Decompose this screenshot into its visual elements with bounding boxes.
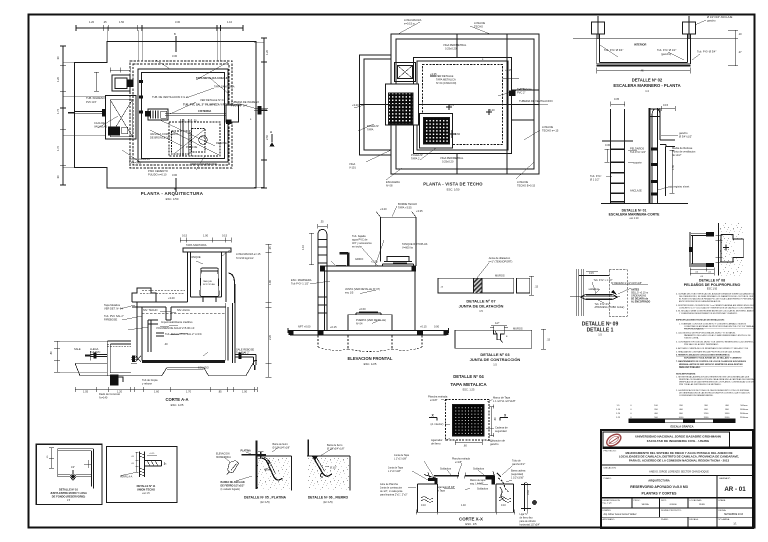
hatch grid 1	[389, 93, 414, 124]
svg-text:ESC. 1/25: ESC. 1/25	[171, 403, 184, 407]
svg-text:1/2": 1/2"	[495, 321, 500, 325]
top dimension chain	[76, 25, 243, 31]
svg-text:TANQUE: TANQUE	[203, 280, 212, 283]
svg-text:agua PVC de: agua PVC de	[352, 238, 368, 242]
svg-text:.60: .60	[493, 417, 497, 421]
left wall block	[418, 484, 438, 512]
inner caseta wall below	[166, 307, 171, 320]
svg-text:ANTICORROSIVOS EN CADA INSTALA: ANTICORROSIVOS EN CADA INSTALACION.	[679, 300, 721, 303]
svg-text:2.20: 2.20	[268, 334, 272, 340]
far-left dim	[54, 341, 60, 372]
svg-text:Agarrador: Agarrador	[431, 438, 443, 442]
svg-text:Tub. bajada: Tub. bajada	[352, 234, 366, 238]
leaders	[310, 206, 397, 324]
svg-text:REBOSE: REBOSE	[216, 141, 227, 145]
svg-text:.85: .85	[218, 390, 222, 394]
logo box	[603, 432, 730, 448]
right corner angle black	[485, 476, 495, 485]
Z profile	[58, 449, 94, 489]
leaders	[408, 461, 528, 513]
svg-text:.35: .35	[320, 220, 324, 224]
planta arquitectura title	[141, 191, 204, 201]
svg-text:e=1" (TEKNOPORT): e=1" (TEKNOPORT)	[489, 260, 513, 264]
svg-text:SOLADO: SOLADO	[198, 366, 209, 370]
leaders	[606, 135, 678, 190]
ladder rails	[318, 236, 327, 331]
svg-text:Ø 1 1/2": Ø 1 1/2"	[590, 178, 600, 182]
svg-text:ROTOPLAS: ROTOPLAS	[203, 283, 215, 286]
interior beam lines	[360, 34, 458, 174]
svg-text:e=1/8": e=1/8"	[455, 461, 462, 464]
svg-text:TECHO e=.15: TECHO e=.15	[542, 129, 559, 133]
outer slab outline	[391, 34, 539, 174]
svg-text:Ø 1/2"x3/4" ANCLAJE: Ø 1/2"x3/4" ANCLAJE	[707, 15, 733, 19]
svg-text:+0.60: +0.60	[359, 307, 366, 311]
svg-text:VIGA PERIMETRAL: VIGA PERIMETRAL	[440, 156, 464, 160]
leaders	[320, 448, 333, 467]
svg-text:Soldadura: Soldadura	[440, 468, 452, 471]
svg-text:1.10: 1.10	[301, 244, 305, 250]
hatch grid 2	[424, 118, 450, 145]
svg-text:JUNTA ENTRE MURO Y LOSA: JUNTA ENTRE MURO Y LOSA	[50, 491, 87, 495]
plano row	[601, 497, 753, 499]
dims below	[690, 268, 714, 276]
top line + dim	[579, 274, 609, 276]
svg-text:1/2": 1/2"	[71, 467, 75, 469]
section A marker right	[271, 134, 273, 142]
svg-text:VIGA PERIMETRAL: VIGA PERIMETRAL	[443, 43, 467, 47]
svg-text:FECHA:: FECHA:	[719, 509, 727, 512]
svg-text:NPT +0.00: NPT +0.00	[298, 325, 311, 329]
svg-text:Tapa Metalica: Tapa Metalica	[104, 303, 121, 307]
svg-text:Tub. FºGº: Tub. FºGº	[590, 174, 601, 178]
left wing	[360, 55, 392, 155]
svg-text:VIGA: VIGA	[349, 162, 355, 166]
svg-text:Ubicacion de: Ubicacion de	[490, 439, 506, 443]
svg-text:y rebose: y rebose	[142, 382, 153, 386]
X axis marks	[429, 418, 508, 421]
svg-text:Impermeabilizante c/aditivo: Impermeabilizante c/aditivo	[161, 320, 193, 324]
planta arquitectura	[60, 25, 275, 192]
svg-text:Junta de dilatacion: Junta de dilatacion	[489, 256, 511, 260]
tank inside caseta	[200, 268, 219, 297]
svg-text:POZA DE: POZA DE	[186, 145, 198, 149]
svg-text:UNIVERSIDAD NACIONAL JORGE BAS: UNIVERSIDAD NACIONAL JORGE BASADRE GROHM…	[635, 435, 721, 439]
svg-text:3.30: 3.30	[175, 20, 181, 24]
base band	[288, 331, 449, 336]
corte X-X	[408, 461, 537, 515]
svg-text:PLANTA - VISTA DE TECHO: PLANTA - VISTA DE TECHO	[423, 182, 483, 187]
svg-text:0.25x0.20: 0.25x0.20	[445, 47, 457, 51]
left dimension chain	[60, 46, 66, 185]
concrete stipple	[256, 456, 291, 490]
svg-text:p/ Tapa: p/ Tapa	[437, 490, 445, 493]
svg-text:DETALLE Nº 06 , FIERRO: DETALLE Nº 06 , FIERRO	[308, 496, 349, 500]
svg-text:CORTE X-X: CORTE X-X	[459, 517, 483, 522]
svg-text:Cadena de: Cadena de	[495, 426, 508, 430]
svg-text:0.15: 0.15	[663, 103, 669, 107]
svg-text:Ø 1/2"x3/4"x1/8": Ø 1/2"x3/4"x1/8"	[273, 447, 291, 450]
ladder rungs	[611, 149, 625, 202]
svg-text:+3.20: +3.20	[380, 207, 387, 211]
svg-text:PLANTA - ARQUITECTURA: PLANTA - ARQUITECTURA	[141, 191, 204, 196]
svg-text:gancho: gancho	[490, 442, 499, 446]
svg-text:7. MANTENIMIENTO DE CONTROL: 7. MANTENIMIENTO DE CONTROL DE LOS DE CL…	[676, 360, 747, 363]
svg-text:JUNTA DE DILATACIÓN: JUNTA DE DILATACIÓN	[459, 304, 504, 309]
right wall section	[649, 108, 651, 204]
svg-text:2.50: 2.50	[265, 134, 269, 140]
svg-text:TUBOS CORTA.: TUBOS CORTA.	[684, 337, 699, 340]
svg-text:500mm: 500mm	[740, 405, 747, 407]
U channel tube	[597, 34, 691, 64]
small cross marks	[430, 76, 492, 138]
svg-text:TUBERIA DE VENTILACION: TUBERIA DE VENTILACION	[519, 99, 553, 103]
svg-text:Tub FºGº 1 1/2": Tub FºGº 1 1/2"	[291, 282, 309, 286]
corte A-A labels	[49, 234, 272, 400]
faucet	[340, 253, 348, 267]
svg-text:3.00: 3.00	[172, 173, 178, 177]
svg-text:+3.35: +3.35	[398, 109, 405, 113]
tank outer dashed wall	[130, 61, 232, 168]
ground line	[601, 203, 688, 205]
right black connector	[509, 91, 516, 97]
svg-text:+3.20: +3.20	[488, 108, 495, 112]
svg-text:PROV.:: PROV.:	[634, 500, 641, 502]
svg-text:CONSIDERACION PARA ATENERSE.: CONSIDERACION PARA ATENERSE.	[679, 394, 714, 397]
svg-text:de fierro: de fierro	[431, 442, 441, 446]
wall verticals	[611, 109, 625, 204]
svg-text:ESCALERA: ESCALERA	[386, 180, 400, 184]
svg-text:.15: .15	[535, 285, 539, 289]
svg-text:0.00: 0.00	[434, 325, 440, 329]
svg-text:LOSA DE: LOSA DE	[542, 125, 553, 129]
svg-text:1:5: 1:5	[598, 333, 602, 337]
svg-text:Nº RECESO 2 1/2"x3/4"x1/8": Nº RECESO 2 1/2"x3/4"x1/8"	[611, 281, 642, 285]
svg-text:1.60: 1.60	[154, 390, 160, 394]
svg-text:ang. L 1 1/2": ang. L 1 1/2"	[470, 483, 484, 486]
svg-text:Nº 08: Nº 08	[386, 184, 393, 188]
poza wall double lines	[181, 119, 191, 156]
svg-text:+0.15: +0.15	[149, 453, 155, 455]
arrow right top	[611, 290, 617, 295]
svg-text:0.10: 0.10	[421, 504, 426, 507]
svg-text:Ø 3/4"x1/2": Ø 3/4"x1/2"	[679, 135, 692, 139]
svg-text:1.80: 1.80	[268, 279, 272, 285]
svg-text:MENSUAL ANTES DE SER SERVICIO: MENSUAL ANTES DE SER SERVICIO SIEMPRE DE…	[679, 363, 743, 366]
caseta walls	[188, 252, 227, 302]
wall line	[573, 38, 735, 40]
wall line + stipple	[719, 223, 743, 276]
svg-text:.60: .60	[463, 444, 467, 448]
svg-text:e=1/8": e=1/8"	[430, 398, 438, 402]
interior dashed rooms	[169, 122, 220, 156]
proyecto row	[601, 464, 753, 466]
svg-text:en techo: en techo	[352, 245, 363, 249]
bottom dim chain	[75, 387, 257, 392]
svg-text:Ing. J. yrh: Ing. J. yrh	[603, 501, 613, 504]
svg-text:LOSA MACIZA e=.15: LOSA MACIZA e=.15	[236, 252, 261, 256]
hatched wall block	[108, 126, 120, 135]
title block	[601, 430, 753, 528]
svg-text:ETAPA:: ETAPA:	[719, 499, 727, 502]
main tank walls	[137, 302, 228, 361]
svg-text:gancho: gancho	[707, 19, 716, 23]
svg-text:VALVULAS: VALVULAS	[94, 125, 107, 129]
svg-text:1.40: 1.40	[461, 504, 466, 507]
svg-text:PLANTAS Y CORTES: PLANTAS Y CORTES	[641, 492, 677, 496]
planta vista de techo	[354, 22, 548, 180]
small box top-left	[112, 75, 130, 91]
detalle 11 box	[106, 447, 177, 503]
pencil isometrica	[228, 461, 239, 473]
svg-text:.10: .10	[738, 32, 742, 36]
detalle 10 box	[36, 444, 102, 504]
svg-text:DISEÑO:: DISEÑO:	[603, 509, 612, 512]
corte X-X labels	[380, 454, 540, 527]
lid plate	[434, 475, 494, 477]
svg-text:LAMINA Nº:: LAMINA Nº:	[719, 477, 731, 480]
right dimension chain	[261, 38, 267, 188]
svg-text:.90: .90	[56, 175, 60, 179]
hatched joint	[474, 278, 483, 293]
svg-text:0.15: 0.15	[222, 234, 228, 238]
vertical bar with hatch	[140, 452, 145, 477]
floor slab	[142, 360, 225, 363]
svg-text:V=600 lts: V=600 lts	[402, 246, 414, 250]
svg-text:NIV. TECHO: NIV. TECHO	[143, 308, 158, 312]
svg-text:V-101: V-101	[349, 166, 356, 170]
svg-text:(E= 1/5): (E= 1/5)	[323, 500, 332, 504]
svg-text:ARQUITECTURA: ARQUITECTURA	[648, 479, 670, 483]
svg-text:1.20: 1.20	[56, 76, 60, 82]
svg-text:+0.15: +0.15	[330, 325, 337, 329]
svg-text:+3.20: +3.20	[352, 103, 359, 107]
svg-text:+3.35: +3.35	[416, 209, 423, 213]
elevacion frontal	[288, 206, 449, 352]
pointed pipe	[581, 294, 618, 299]
svg-text:PARA EL ACUERDO DE LA COMISION: PARA EL ACUERDO DE LA COMISION NACIONAL …	[629, 458, 730, 462]
elevacion labels	[291, 202, 440, 329]
svg-text:ATRAVIESA ( TUBO Cortar): ATRAVIESA ( TUBO Cortar)	[595, 306, 625, 309]
main roof slab	[132, 297, 226, 307]
svg-text:0.10: 0.10	[501, 504, 506, 507]
handrail curve top	[652, 109, 660, 116]
svg-text:CORTE A-A: CORTE A-A	[165, 397, 188, 402]
axis mark bottom	[175, 178, 177, 192]
svg-text:PRE SALIO EL ACERO TEMPERADO.: PRE SALIO EL ACERO TEMPERADO.	[684, 343, 719, 346]
caseta top dim marks	[376, 212, 416, 218]
leaders	[441, 399, 494, 442]
door lower box	[348, 315, 392, 331]
leader	[477, 263, 489, 278]
foundation dashed	[318, 335, 422, 351]
svg-text:.45: .45	[640, 69, 644, 73]
svg-text:2000mm: 2000mm	[740, 413, 749, 415]
svg-text:ANCLAJE: ANCLAJE	[630, 189, 642, 193]
svg-text:VALVULA COMPUERTA: VALVULA COMPUERTA	[150, 132, 178, 136]
svg-text:1.00: 1.00	[203, 234, 209, 238]
hatch lid 1 frame	[386, 84, 419, 125]
svg-text:esc 1:10: esc 1:10	[629, 217, 639, 220]
svg-text:POLEA Nº: POLEA Nº	[411, 153, 423, 157]
svg-text:GRIFO: GRIFO	[355, 257, 363, 261]
svg-text:PROPORCIONADOS.: PROPORCIONADOS.	[684, 328, 704, 331]
svg-text:LOSA DE: LOSA DE	[474, 21, 485, 25]
svg-text:1:5: 1:5	[493, 363, 497, 367]
svg-text:VER DET. Nº 04: VER DET. Nº 04	[104, 307, 123, 311]
right edge strips	[507, 34, 534, 174]
detalle 08 peldanos	[689, 223, 744, 276]
leaders	[224, 447, 279, 481]
svg-text:1600: 1600	[725, 413, 731, 415]
top dim chain	[180, 238, 231, 243]
svg-text:VER DETALLE: VER DETALLE	[436, 74, 454, 78]
svg-text:3.30: 3.30	[172, 54, 178, 58]
svg-text:SETIEMBRE 2013: SETIEMBRE 2013	[724, 514, 744, 516]
svg-text:(A. interior): (A. interior)	[431, 422, 444, 426]
svg-text:Soldadura: Soldadura	[477, 488, 489, 491]
svg-text:f'c=140: f'c=140	[99, 396, 108, 400]
platina bar	[242, 454, 267, 456]
svg-text:CAJA DE: CAJA DE	[94, 121, 105, 125]
right small dim	[503, 72, 519, 84]
detalle 06 fierro	[307, 439, 350, 490]
anchor plate left	[592, 22, 605, 34]
svg-text:ESC. 1/25: ESC. 1/25	[364, 362, 377, 366]
svg-text:PLANO:: PLANO:	[604, 477, 612, 480]
svg-text:gancho Ø 2": gancho Ø 2"	[512, 463, 525, 466]
svg-text:DETALLE Nº 02: DETALLE Nº 02	[632, 78, 663, 83]
svg-text:1.70: 1.70	[186, 390, 192, 394]
svg-text:+2.20: +2.20	[371, 260, 378, 264]
right piece	[517, 278, 530, 293]
right dim bracket	[670, 150, 675, 193]
svg-text:DIST.:: DIST.:	[661, 500, 667, 502]
svg-text:Plancha estriada: Plancha estriada	[428, 395, 448, 399]
svg-text:MUROS: MUROS	[513, 327, 523, 331]
detalle 09 / detalle 1	[570, 269, 648, 316]
svg-text:JUNTA DE CONTRACCIÓN: JUNTA DE CONTRACCIÓN	[470, 357, 521, 362]
step shape right	[660, 140, 675, 147]
svg-text:DETALLE Nº 04: DETALLE Nº 04	[453, 374, 484, 379]
svg-text:Tub. FºGº Ø 1/2": Tub. FºGº Ø 1/2"	[657, 48, 676, 52]
outlet pipe right	[254, 109, 268, 111]
inner roof square	[414, 58, 512, 154]
right dim chain	[266, 244, 272, 377]
svg-text:DETALLE Nº 08: DETALLE Nº 08	[699, 279, 725, 283]
svg-text:1 1/2"x3/16": 1 1/2"x3/16"	[511, 477, 524, 480]
svg-text:f'c=210 kg/cm2: f'c=210 kg/cm2	[236, 256, 254, 260]
svg-text:0.15: 0.15	[182, 234, 188, 238]
leaders	[592, 282, 648, 303]
left corner angle black	[428, 478, 437, 484]
chain	[498, 478, 509, 492]
svg-text:CONCRETO 1:2 Y COLOCADOS Y REV: CONCRETO 1:2 Y COLOCADOS Y REVESTIDOS DE…	[679, 307, 766, 310]
svg-text:JUNTA (VER DETALLE Nº 07): JUNTA (VER DETALLE Nº 07)	[345, 287, 380, 291]
svg-text:Nº 04: Nº 04	[356, 322, 363, 326]
right wall box	[226, 105, 239, 122]
svg-text:TANQUE ROTOPLAS: TANQUE ROTOPLAS	[402, 242, 428, 246]
svg-text:NOTA IMPORTANTE:: NOTA IMPORTANTE:	[676, 373, 696, 376]
caseta walls	[381, 217, 417, 266]
svg-text:+0.15: +0.15	[420, 325, 427, 329]
svg-text:VER DETALLE Nº 04: VER DETALLE Nº 04	[200, 98, 225, 102]
svg-text:.80: .80	[49, 351, 53, 355]
svg-text:.30: .30	[181, 119, 185, 123]
svg-text:0.30: 0.30	[527, 490, 530, 495]
svg-text:AR - 01: AR - 01	[724, 486, 746, 493]
bottom dim	[416, 510, 515, 515]
svg-text:TAPA +3.55: TAPA +3.55	[398, 206, 412, 210]
svg-text:ESC. 1/5: ESC. 1/5	[465, 522, 477, 526]
roof slab band	[321, 266, 416, 271]
svg-text:Tub de limpia: Tub de limpia	[142, 378, 158, 382]
svg-text:(1 variado fugado): (1 variado fugado)	[221, 488, 241, 491]
svg-text:Y CUBIERTA DE REVESTIMIENTOS E: Y CUBIERTA DE REVESTIMIENTOS EN PINTURA …	[679, 312, 738, 315]
svg-text:.15: .15	[547, 338, 551, 342]
svg-text:ESC. 1/50: ESC. 1/50	[447, 188, 460, 192]
svg-text:0.70: 0.70	[449, 103, 455, 107]
svg-text:NIV. AGUA: NIV. AGUA	[177, 308, 190, 312]
svg-text:soldadura: soldadura	[589, 288, 600, 291]
svg-text:TUB. INGRESO: TUB. INGRESO	[86, 96, 105, 100]
detalle 07 junta de dilatacion	[438, 263, 534, 295]
left dim bracket	[605, 149, 610, 162]
svg-text:Tub PVC: Tub PVC	[90, 350, 101, 354]
svg-text:4. APOYADO CUENTA DE LOS RE: 4. APOYADO CUENTA DE LOS RESERVADOS NO E…	[676, 347, 749, 350]
svg-text:1.10: 1.10	[227, 20, 233, 24]
waterstop notch	[70, 475, 76, 481]
svg-text:UNION TECHO: UNION TECHO	[137, 488, 155, 492]
outer wall outline (L-bump on left)	[75, 42, 256, 189]
svg-text:ELEVACION FRONTAL: ELEVACION FRONTAL	[348, 356, 393, 361]
svg-text:ISOMETRICA: ISOMETRICA	[216, 456, 231, 459]
svg-text:Tub FºGº 3/4": Tub FºGº 3/4"	[630, 150, 646, 154]
svg-text:Ø 1/2"x3/4"x1/8": Ø 1/2"x3/4"x1/8"	[327, 448, 345, 451]
dashed lines under roof	[140, 290, 185, 293]
leader to top label	[600, 20, 706, 60]
svg-text:LOCALIDAD:: LOCALIDAD:	[690, 499, 703, 502]
svg-text:TECHO E=0.15: TECHO E=0.15	[517, 184, 536, 188]
svg-text:TAPA METALICA 0.60x0.60: TAPA METALICA 0.60x0.60	[196, 76, 229, 80]
svg-text:Tub. FºGº Ø 3/4": Tub. FºGº Ø 3/4"	[604, 48, 623, 52]
svg-text:TUBERIA DE INGRESO: TUBERIA DE INGRESO	[231, 100, 259, 104]
planta techo labels	[349, 18, 559, 188]
svg-text:3/4" y accesorios: 3/4" y accesorios	[352, 241, 372, 245]
svg-text:+3.35: +3.35	[430, 72, 437, 76]
inlet pipe left	[75, 112, 106, 114]
svg-text:ESC 1/10: ESC 1/10	[707, 288, 718, 291]
svg-text:ESCALA:: ESCALA:	[690, 518, 699, 521]
black anchor block (dado)	[110, 375, 119, 386]
svg-text:5. REALIZARON CONTRATE EN L: 5. REALIZARON CONTRATE EN LAS PROPORCION…	[676, 351, 741, 354]
detalle 04 tapa metalica	[450, 374, 487, 392]
tank inner solid walls	[138, 69, 228, 162]
top-left box with cross	[395, 63, 416, 82]
svg-text:esc 1:5: esc 1:5	[142, 493, 150, 495]
equipment rect interior	[148, 109, 168, 120]
svg-text:TAPA SANITARIA: TAPA SANITARIA	[186, 243, 207, 247]
svg-text:Nº LAMINA:: Nº LAMINA:	[719, 518, 731, 521]
svg-text:1000mm: 1000mm	[740, 409, 749, 411]
valve chamber left	[107, 341, 131, 376]
hatch curb top-left steps	[132, 288, 156, 302]
svg-text:PUERTA (VER DETALLE): PUERTA (VER DETALLE)	[356, 318, 386, 322]
corte A-A	[54, 238, 272, 393]
dashed frame	[446, 400, 490, 441]
svg-text:Muro: Muro	[265, 469, 271, 472]
svg-text:.90: .90	[56, 56, 60, 60]
